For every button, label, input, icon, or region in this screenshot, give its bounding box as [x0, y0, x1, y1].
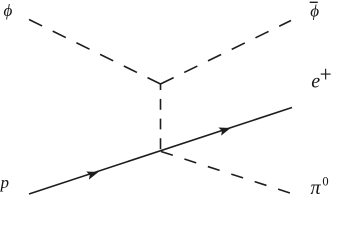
wire: internal scalar propagator (vertical dashed, upper vertex to lower vertex): [160, 84, 162, 152]
arrowhead on incoming proton segment: [86, 168, 100, 180]
svg-text:e: e: [311, 70, 320, 92]
svg-text:0: 0: [322, 175, 328, 189]
wire: outgoing scalar phi-bar (dashed propagator, upper vertex to top-right): [161, 21, 292, 85]
wire: outgoing pi0 (dashed propagator, lower vertex to bottom-right): [161, 152, 290, 194]
wire: incoming scalar phi (dashed propagator, top-left to upper vertex): [29, 20, 161, 85]
arrowhead on outgoing positron segment: [218, 124, 232, 136]
svg-text:π: π: [311, 177, 322, 196]
svg-text:ϕ: ϕ: [310, 2, 319, 21]
wire: fermion line p to e+ (solid, through lower vertex): [29, 108, 292, 195]
svg-text:ϕ: ϕ: [4, 1, 13, 20]
plus sign of e+ (drawn): [321, 69, 331, 80]
overbar of phi-bar: [310, 1, 318, 3]
svg-text:p: p: [0, 173, 9, 192]
